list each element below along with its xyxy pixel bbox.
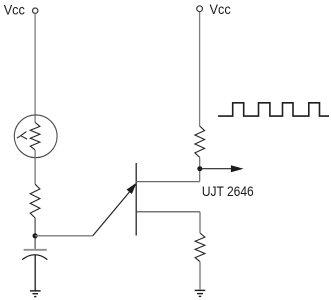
svg-text:Vcc: Vcc — [210, 2, 231, 17]
svg-text:UJT 2646: UJT 2646 — [202, 184, 254, 199]
svg-text:Vcc: Vcc — [4, 2, 25, 17]
